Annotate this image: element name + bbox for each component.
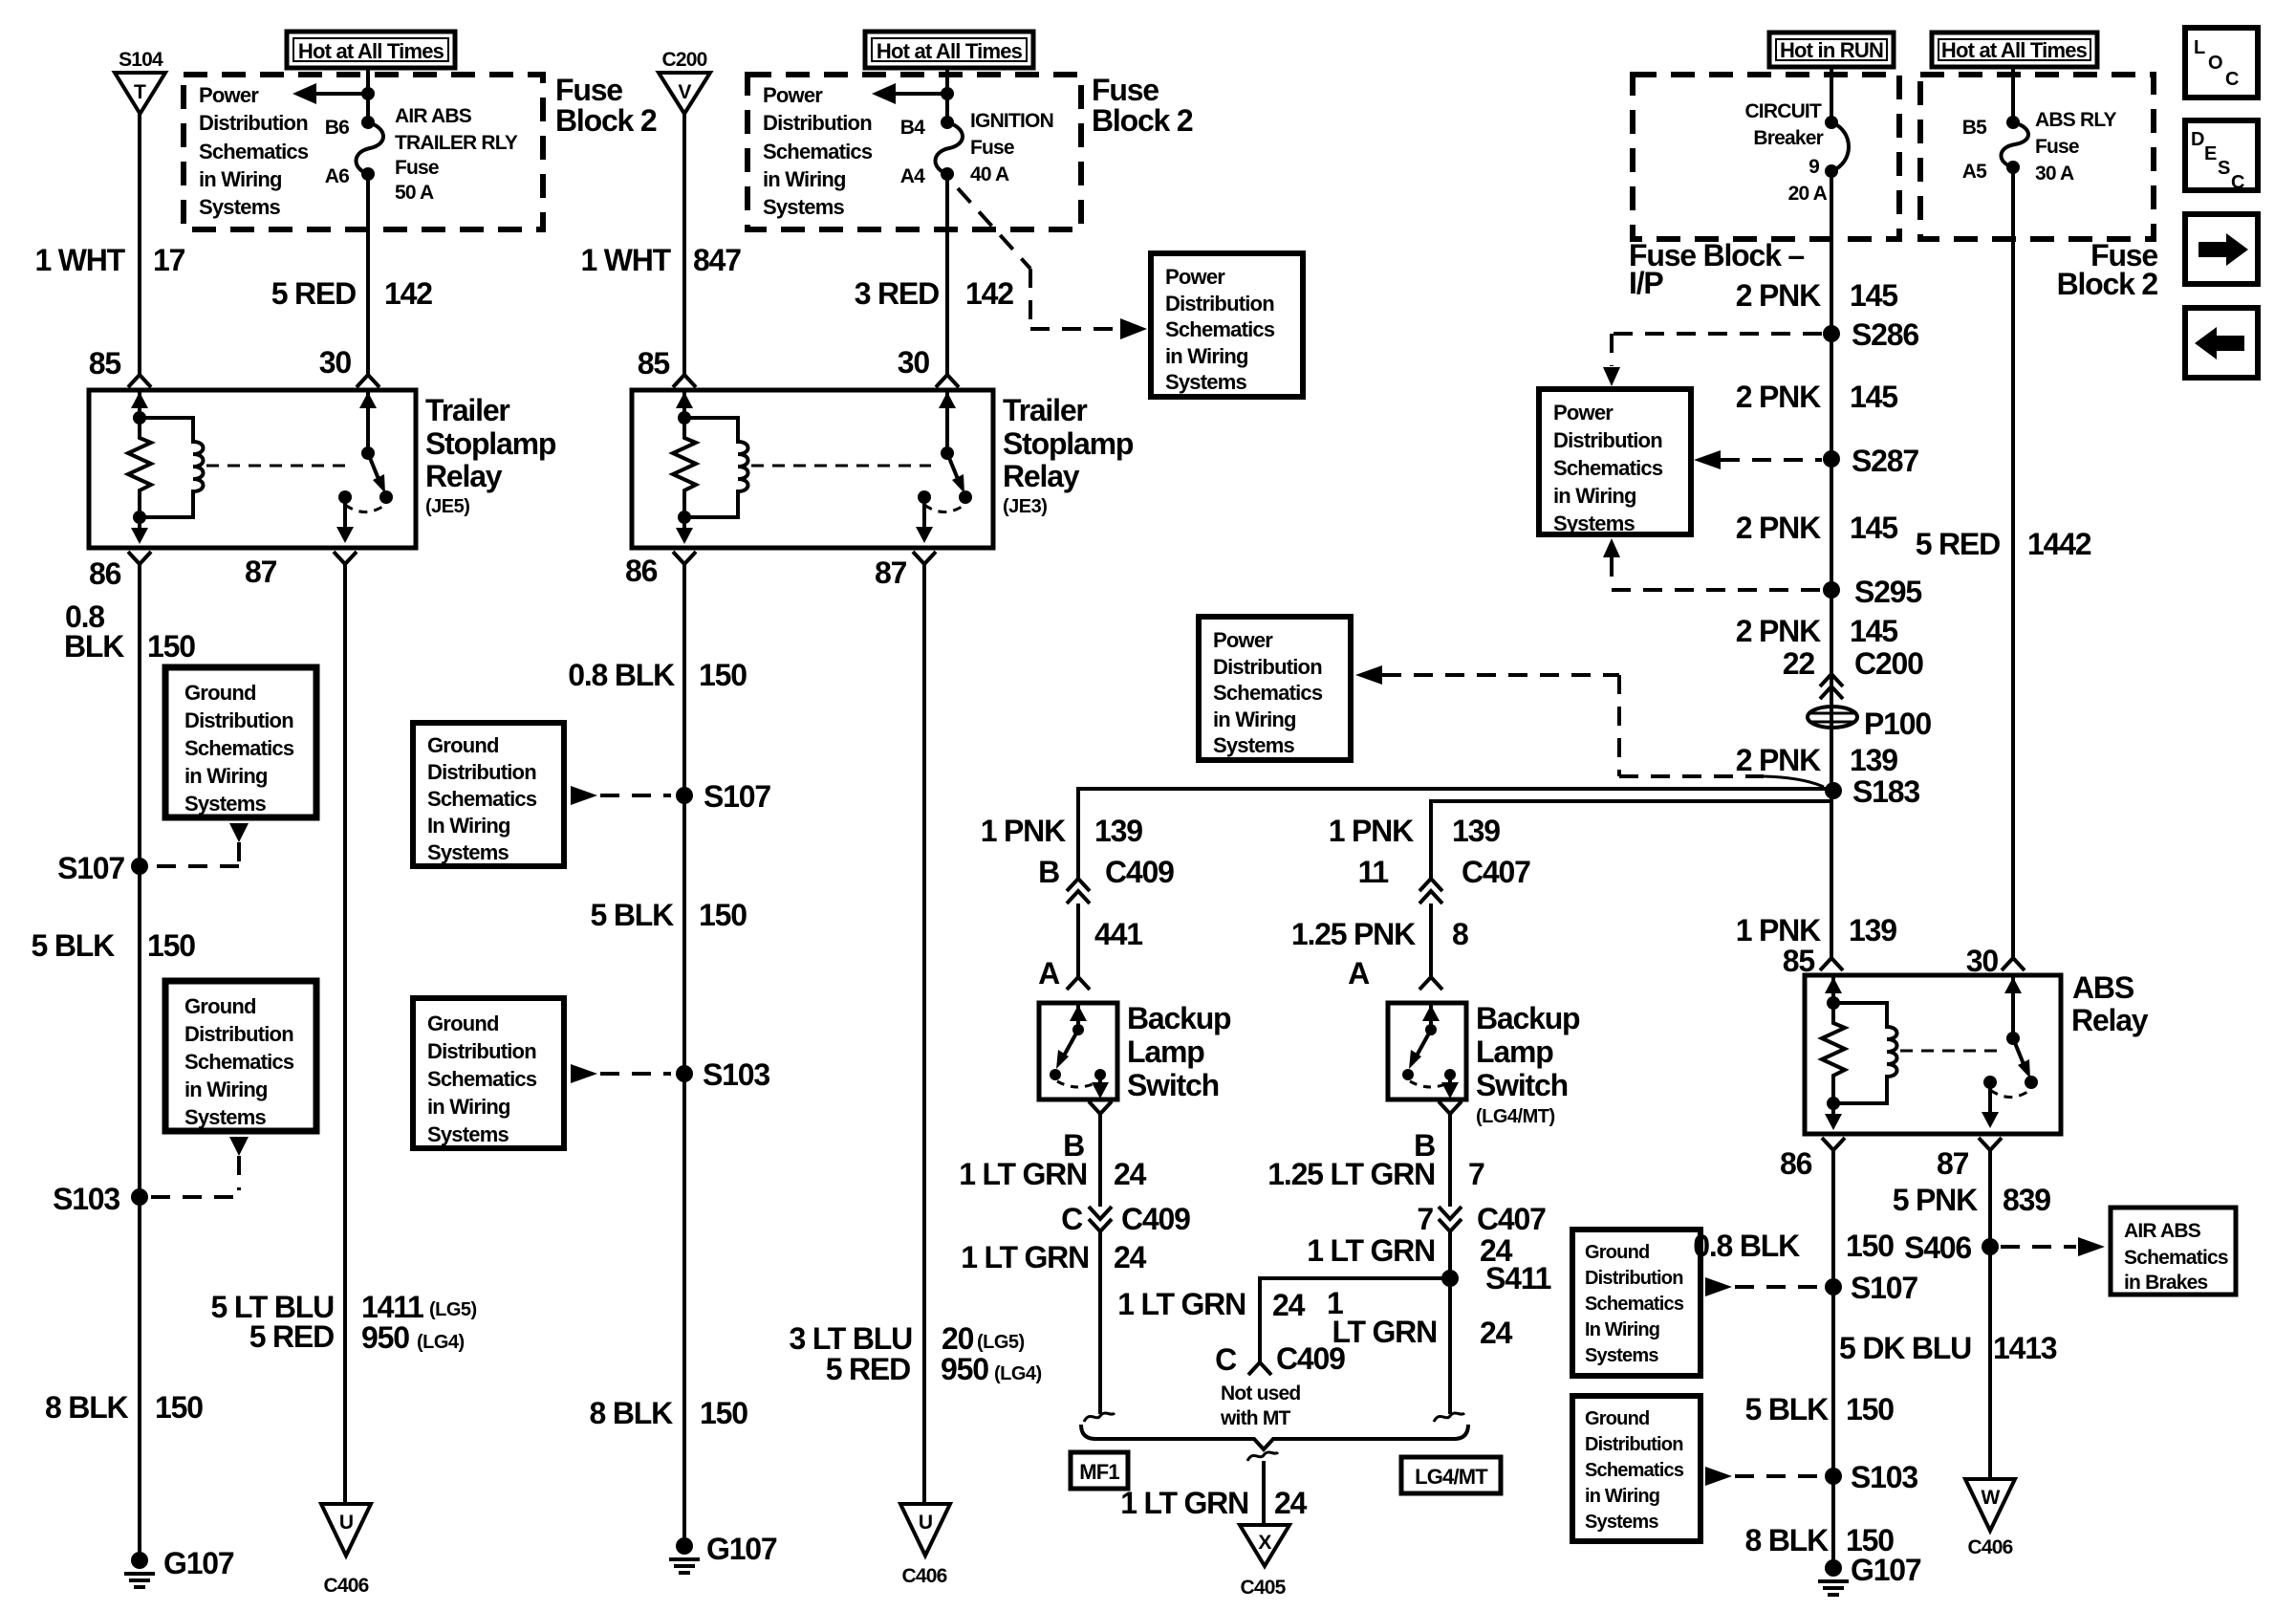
power label Hot at All Times (right)	[1932, 33, 2097, 67]
label 8 BLK 150 (right)	[1745, 1523, 1895, 1557]
wire S411 to C409 C (not used with MT)	[1248, 1278, 1450, 1375]
svg-text:1 WHT: 1 WHT	[34, 243, 125, 277]
svg-text:(LG4): (LG4)	[417, 1332, 465, 1353]
svg-text:85: 85	[89, 346, 121, 381]
svg-text:U: U	[339, 1512, 353, 1534]
connector C409 C chevrons	[1089, 1207, 1112, 1231]
svg-text:D: D	[2191, 129, 2204, 150]
svg-text:2 PNK: 2 PNK	[1736, 380, 1821, 414]
svg-text:150: 150	[155, 1390, 203, 1425]
label 5 DK BLU 1413	[1839, 1331, 2057, 1365]
label Trailer Stoplamp Relay (JE5)	[425, 393, 556, 517]
ground G107 (middle)	[669, 1532, 777, 1573]
ground G107 (left)	[124, 1546, 234, 1587]
ground distribution reference box (middle lower)	[413, 998, 564, 1148]
wire S104 to relay JE5 pin 85	[128, 114, 151, 387]
dashed reference link to S107 (middle)	[571, 786, 671, 805]
label 1 WHT 847	[580, 243, 741, 277]
svg-text:T: T	[134, 81, 146, 103]
wire circuit breaker to ABS relay pin 85	[1820, 171, 1843, 970]
ABS relay switch	[1982, 975, 2038, 1128]
label LG4/MT box	[1401, 1457, 1501, 1493]
wire fuse A6 to relay JE5 pin 30	[357, 174, 379, 387]
svg-text:8: 8	[1452, 917, 1468, 951]
label 5 BLK 150 (left)	[32, 928, 196, 963]
svg-text:C: C	[1061, 1202, 1083, 1236]
svg-text:G107: G107	[1851, 1553, 1921, 1587]
svg-text:Hot at All Times: Hot at All Times	[1941, 38, 2088, 62]
backup lamp switch MF1 contacts	[1050, 1003, 1109, 1099]
svg-text:C: C	[2231, 172, 2244, 193]
fuse block I/P dashed outline	[1633, 75, 1899, 239]
dashed reference S287 to Power Distribution box	[1694, 450, 1822, 469]
ground distribution reference box (left upper)	[165, 667, 316, 817]
svg-text:24: 24	[1114, 1240, 1147, 1274]
svg-text:150: 150	[1846, 1392, 1894, 1426]
svg-text:7: 7	[1468, 1157, 1484, 1191]
wire ABS RLY fuse to ABS relay pin 30	[2002, 167, 2025, 970]
wire backup lamp switch LG4/MT pin B down	[1439, 1101, 1462, 1207]
dashed reference S286 to Power Distribution box	[1603, 334, 1822, 386]
svg-text:S406: S406	[1904, 1230, 1971, 1265]
legend DESC box	[2185, 120, 2258, 193]
splice S103 (left)	[53, 1182, 148, 1216]
svg-text:CIRCUIT: CIRCUIT	[1744, 100, 1822, 122]
label 2 PNK 145 (second)	[1736, 380, 1897, 414]
wire S183 to C407 branch (backup lamp switch LG4/MT)	[1419, 801, 1831, 903]
svg-text:11: 11	[1358, 855, 1389, 889]
relay JE3 actuation dashed link	[751, 465, 931, 468]
svg-text:5 BLK: 5 BLK	[32, 928, 116, 963]
label 1 LT GRN 24 (below S411)	[1327, 1286, 1513, 1350]
svg-text:1411: 1411	[361, 1290, 423, 1324]
ground distribution reference box (middle upper)	[413, 723, 564, 866]
wire backup lamp switch MF1 pin B down	[1089, 1101, 1112, 1207]
svg-text:1 LT GRN: 1 LT GRN	[1307, 1233, 1435, 1268]
switch Backup Lamp Switch (LG4/MT) box	[1388, 1003, 1466, 1099]
svg-text:87: 87	[1937, 1146, 1969, 1181]
svg-text:5 RED: 5 RED	[826, 1352, 910, 1386]
svg-text:(LG5): (LG5)	[977, 1332, 1025, 1353]
relay JE5 switch	[336, 390, 393, 543]
svg-text:LG4/MT: LG4/MT	[1415, 1465, 1488, 1489]
backup lamp switch LG4/MT contacts	[1402, 1003, 1459, 1099]
splice S406	[1904, 1230, 1999, 1265]
label 5 RED 1442	[1916, 527, 2091, 561]
connector C406 triangle W (right)	[1965, 1479, 2015, 1558]
grommet P100	[1808, 707, 1931, 741]
label 2 PNK 139	[1736, 743, 1897, 777]
power distribution reference box (middle lower)	[1199, 617, 1351, 760]
svg-text:1 LT GRN: 1 LT GRN	[961, 1240, 1089, 1274]
label 5 PNK 839	[1893, 1183, 2050, 1217]
wire brace to C405	[1262, 1461, 1266, 1525]
svg-text:S183: S183	[1852, 774, 1919, 809]
svg-text:Hot in RUN: Hot in RUN	[1780, 38, 1883, 62]
svg-text:2 PNK: 2 PNK	[1736, 511, 1821, 545]
wire C407 7 to LG4/MT brace	[1448, 1231, 1452, 1414]
svg-text:30: 30	[319, 345, 352, 380]
svg-text:L: L	[2194, 37, 2205, 58]
label B C409	[1038, 855, 1174, 889]
svg-text:B5: B5	[1962, 117, 1987, 139]
svg-text:847: 847	[693, 243, 741, 277]
svg-text:S295: S295	[1854, 575, 1921, 609]
svg-text:24: 24	[1274, 1486, 1308, 1520]
wire Hot at All Times to ABS RLY fuse	[2011, 67, 2015, 122]
connector C200 triangle V	[659, 73, 710, 114]
svg-text:C200: C200	[1854, 646, 1923, 681]
label C C409	[1061, 1202, 1190, 1236]
svg-text:1 PNK: 1 PNK	[1736, 913, 1821, 947]
svg-text:(JE3): (JE3)	[1003, 496, 1047, 517]
svg-text:85: 85	[638, 346, 670, 381]
fuse block 2 dashed outline (middle)	[747, 75, 1081, 229]
svg-text:1413: 1413	[1993, 1331, 2057, 1365]
svg-text:1442: 1442	[2027, 527, 2091, 561]
fuse ABS RLY 30 A	[2001, 116, 2028, 174]
svg-text:S: S	[2218, 158, 2230, 179]
svg-text:8 BLK: 8 BLK	[45, 1390, 129, 1425]
svg-text:B4: B4	[900, 117, 925, 139]
svg-text:S287: S287	[1852, 444, 1918, 478]
ABS relay coil and resistor	[1822, 975, 1897, 1130]
wire Hot at All Times to fuse B4	[945, 68, 949, 122]
svg-text:5 PNK: 5 PNK	[1893, 1183, 1978, 1217]
svg-text:5 RED: 5 RED	[271, 276, 356, 311]
svg-text:0.8 BLK: 0.8 BLK	[568, 658, 675, 692]
svg-text:C406: C406	[323, 1575, 368, 1597]
ground distribution reference box (left lower)	[165, 981, 316, 1131]
label 1 LT GRN 24 (above S411)	[1307, 1233, 1512, 1268]
svg-text:G107: G107	[706, 1532, 777, 1566]
circuit breaker 20 A	[1825, 116, 1849, 178]
svg-text:22: 22	[1783, 646, 1815, 681]
svg-text:150: 150	[1846, 1229, 1894, 1263]
label 5 RED 142	[271, 276, 432, 311]
relay JE5 actuation dashed link	[206, 465, 352, 468]
connector C407 7 chevrons	[1439, 1207, 1462, 1231]
svg-text:C407: C407	[1462, 855, 1530, 889]
dashed reference S406 to AIR ABS box	[2001, 1237, 2105, 1256]
relay JE3 switch	[916, 390, 972, 543]
svg-text:145: 145	[1850, 278, 1897, 313]
svg-text:139: 139	[1849, 913, 1896, 947]
svg-text:S103: S103	[1851, 1460, 1917, 1494]
relay Trailer Stoplamp Relay JE5 box	[89, 390, 416, 548]
connector C406 triangle U (middle)	[900, 1504, 950, 1587]
svg-text:S286: S286	[1852, 317, 1918, 352]
svg-text:C: C	[1215, 1342, 1237, 1377]
svg-text:G107: G107	[163, 1546, 234, 1580]
svg-text:1 LT GRN: 1 LT GRN	[1120, 1486, 1248, 1520]
svg-text:5 DK BLU: 5 DK BLU	[1839, 1331, 1971, 1365]
wire ABS relay pin 86 to G107	[1822, 1138, 1845, 1560]
svg-text:150: 150	[147, 629, 195, 664]
label 8 BLK 150 (middle)	[590, 1396, 748, 1430]
fuse block 2 dashed outline (right)	[1920, 75, 2154, 239]
svg-text:A4: A4	[900, 165, 925, 187]
splice S107 (right)	[1825, 1271, 1917, 1305]
svg-text:(LG4/MT): (LG4/MT)	[1476, 1106, 1555, 1127]
svg-text:S104: S104	[119, 49, 163, 71]
dashed reference link to S103 (middle)	[571, 1064, 671, 1083]
squiggle end of MF1 branch wire	[1084, 1413, 1115, 1422]
label Backup Lamp Switch (LG4/MT)	[1476, 1001, 1580, 1127]
wire C409 C to MF1 brace	[1098, 1231, 1102, 1414]
svg-text:441: 441	[1094, 917, 1142, 951]
relay JE5 coil and resistor	[128, 390, 204, 544]
svg-text:MF1: MF1	[1079, 1460, 1119, 1484]
svg-text:A5: A5	[1962, 161, 1987, 183]
svg-text:C409: C409	[1105, 855, 1174, 889]
connector C405 triangle X	[1240, 1525, 1289, 1599]
fuse AIR ABS TRAILER RLY 50 A	[356, 116, 383, 181]
svg-text:(LG5): (LG5)	[429, 1299, 477, 1320]
squiggle below brace	[1247, 1452, 1278, 1461]
relay ABS Relay box	[1805, 975, 2061, 1134]
svg-text:S107: S107	[57, 851, 124, 885]
wire Hot in RUN to circuit breaker	[1830, 67, 1833, 122]
svg-text:139: 139	[1850, 743, 1897, 777]
label 8 BLK 150 (left)	[45, 1390, 203, 1425]
wire ABS relay pin 87 to C406 W	[1979, 1138, 2002, 1479]
arrow to Power Distribution reference (left fuse block)	[292, 83, 375, 104]
squiggle end of LG4/MT branch wire	[1434, 1413, 1464, 1422]
wire C409 B to backup lamp switch MF1	[1067, 903, 1090, 990]
power label Hot in RUN	[1769, 33, 1894, 67]
svg-text:839: 839	[2003, 1183, 2050, 1217]
label 0.8 BLK 150 (middle)	[568, 658, 747, 692]
svg-text:145: 145	[1850, 614, 1897, 648]
svg-text:86: 86	[1780, 1146, 1812, 1181]
svg-text:A: A	[1038, 956, 1060, 991]
label 11 C407	[1358, 855, 1531, 889]
svg-text:C406: C406	[1967, 1536, 2012, 1558]
svg-text:(LG4): (LG4)	[994, 1363, 1042, 1384]
ground G107 (right)	[1818, 1553, 1921, 1595]
svg-text:S103: S103	[53, 1182, 119, 1216]
dashed reference link to S107 (left)	[151, 823, 249, 866]
svg-text:8 BLK: 8 BLK	[1745, 1523, 1830, 1557]
power label Hot at All Times (middle)	[865, 32, 1033, 68]
label 1.25 LT GRN 7	[1267, 1157, 1484, 1191]
svg-text:142: 142	[384, 276, 432, 311]
svg-text:C: C	[2225, 69, 2239, 90]
power label Hot at All Times (left)	[287, 32, 455, 68]
ground distribution reference box (right upper)	[1572, 1230, 1700, 1376]
ABS relay actuation dashed link	[1900, 1050, 1998, 1053]
label Trailer Stoplamp Relay (JE3)	[1003, 393, 1134, 517]
svg-text:S411: S411	[1485, 1261, 1551, 1295]
relay JE3 coil and resistor	[673, 390, 748, 544]
label 1 PNK 139 (ABS relay)	[1736, 913, 1896, 947]
svg-text:24: 24	[1114, 1157, 1147, 1191]
svg-text:(JE5): (JE5)	[425, 496, 469, 517]
svg-text:87: 87	[875, 555, 907, 590]
svg-text:C200: C200	[661, 49, 706, 71]
wire Hot at All Times to fuse B6	[366, 68, 370, 122]
svg-text:9: 9	[1809, 156, 1819, 178]
splice S107 (left)	[57, 851, 148, 885]
svg-text:7: 7	[1417, 1202, 1433, 1236]
splice S107 (middle)	[676, 779, 770, 814]
svg-text:142: 142	[965, 276, 1013, 311]
fuse IGNITION 40 A	[935, 116, 963, 181]
svg-text:1 WHT: 1 WHT	[580, 243, 671, 277]
reference box AIR ABS Schematics in Brakes	[2111, 1208, 2236, 1295]
svg-text:950: 950	[941, 1352, 988, 1386]
connector S104 triangle T	[115, 73, 165, 114]
svg-text:C406: C406	[901, 1565, 946, 1587]
label 22 C200	[1783, 646, 1923, 681]
wire fuse A4 to relay JE3 pin 30	[936, 174, 959, 387]
label 1 LT GRN 24 (S411 branch)	[1117, 1287, 1305, 1322]
svg-text:145: 145	[1850, 511, 1897, 545]
splice S411	[1441, 1261, 1551, 1295]
label 5 BLK 150 (right)	[1745, 1392, 1895, 1426]
legend left arrow box	[2185, 308, 2258, 378]
label 5 BLK 150 (middle)	[591, 898, 747, 932]
svg-text:86: 86	[89, 556, 121, 591]
svg-text:C409: C409	[1121, 1202, 1190, 1236]
svg-text:139: 139	[1452, 814, 1500, 848]
label MF1 box	[1071, 1452, 1128, 1489]
svg-text:3 LT BLU: 3 LT BLU	[790, 1321, 913, 1356]
label 1 WHT 17	[34, 243, 184, 277]
dashed reference link to S103 (right)	[1705, 1467, 1820, 1486]
svg-text:2 PNK: 2 PNK	[1736, 614, 1821, 648]
label 1.25 PNK 8	[1291, 917, 1468, 951]
dashed reference from IGNITION fuse to Power Distribution box	[958, 188, 1147, 339]
svg-text:O: O	[2208, 53, 2222, 74]
dashed reference S183 to Power Distribution box (middle lower)	[1355, 665, 1824, 787]
svg-text:24: 24	[1480, 1316, 1513, 1350]
connector C200 chevrons (right wire)	[1820, 674, 1843, 699]
connector C406 triangle U (left)	[321, 1504, 371, 1597]
svg-text:C409: C409	[1276, 1341, 1345, 1376]
svg-text:150: 150	[699, 898, 747, 932]
dashed reference link to S103 (left)	[151, 1137, 249, 1197]
svg-text:A6: A6	[325, 165, 349, 187]
svg-text:1 LT GRN: 1 LT GRN	[1117, 1287, 1245, 1321]
svg-text:E: E	[2204, 143, 2217, 164]
svg-text:139: 139	[1094, 814, 1142, 848]
svg-text:Breaker: Breaker	[1753, 127, 1823, 149]
svg-text:S103: S103	[703, 1057, 769, 1092]
label B6 A6	[325, 117, 349, 187]
legend right arrow box	[2185, 214, 2258, 284]
power distribution reference box (right)	[1539, 389, 1691, 535]
svg-text:B6: B6	[325, 117, 349, 139]
label B4 A4	[900, 117, 925, 187]
svg-text:17: 17	[153, 243, 185, 277]
svg-text:LT GRN: LT GRN	[1332, 1315, 1437, 1349]
label 5 LT BLU 1411 (LG5) / 5 RED 950 (LG4)	[211, 1290, 477, 1355]
svg-text:P100: P100	[1864, 707, 1931, 741]
svg-text:30: 30	[898, 345, 930, 380]
wire C200 to relay JE3 pin 85	[673, 114, 696, 387]
label 0.8 BLK 150 (left)	[64, 599, 195, 664]
splice S103 (right)	[1825, 1460, 1917, 1494]
dashed reference link to S107 (right)	[1705, 1277, 1820, 1296]
svg-text:20 A: 20 A	[1788, 183, 1828, 205]
label B5 A5	[1962, 117, 1987, 183]
svg-text:S107: S107	[1851, 1271, 1917, 1305]
switch Backup Lamp Switch (MF1) box	[1039, 1003, 1117, 1099]
wire relay JE3 pin 87 to C406	[913, 552, 936, 1504]
svg-text:5 BLK: 5 BLK	[591, 898, 675, 932]
splice S287	[1823, 444, 1918, 478]
svg-text:0.8 BLK: 0.8 BLK	[1693, 1229, 1800, 1263]
svg-text:Hot at All Times: Hot at All Times	[877, 39, 1023, 63]
svg-text:150: 150	[700, 1396, 747, 1430]
label 1 PNK 139 (C407)	[1329, 814, 1500, 848]
label 2 PNK 145 (first)	[1736, 278, 1897, 313]
label 0.8 BLK 150 (right)	[1693, 1229, 1894, 1263]
svg-text:W: W	[1981, 1487, 2000, 1509]
svg-text:24: 24	[1272, 1288, 1306, 1322]
svg-text:A: A	[1348, 956, 1370, 991]
svg-text:1 LT GRN: 1 LT GRN	[959, 1157, 1087, 1191]
svg-text:3 RED: 3 RED	[855, 276, 939, 311]
svg-text:145: 145	[1850, 380, 1897, 414]
wire relay JE3 pin 86 to G107	[673, 552, 696, 1538]
relay Trailer Stoplamp Relay JE3 box	[632, 390, 993, 548]
svg-text:2 PNK: 2 PNK	[1736, 743, 1821, 777]
svg-text:950: 950	[361, 1320, 409, 1355]
svg-text:S107: S107	[704, 779, 770, 814]
svg-text:150: 150	[147, 928, 195, 963]
wire relay JE5 pin 86 to G107	[128, 552, 151, 1553]
splice S286	[1823, 317, 1918, 352]
label 1 LT GRN 24 (above C409 C)	[959, 1157, 1146, 1191]
svg-text:5 RED: 5 RED	[249, 1319, 334, 1354]
fuse block 2 dashed outline (left)	[184, 75, 543, 229]
dashed reference S295 to Power Distribution box	[1603, 538, 1822, 590]
svg-text:2 PNK: 2 PNK	[1736, 278, 1821, 313]
svg-text:20: 20	[942, 1321, 974, 1356]
svg-text:87: 87	[245, 555, 277, 589]
power distribution reference box (middle upper)	[1151, 253, 1303, 397]
svg-text:86: 86	[625, 554, 658, 588]
svg-text:5 RED: 5 RED	[1916, 527, 2000, 561]
svg-text:BLK: BLK	[64, 629, 124, 664]
svg-text:X: X	[1258, 1532, 1271, 1554]
wire relay JE5 pin 87 to C406	[334, 552, 357, 1504]
label 2 PNK 145 (third)	[1736, 511, 1897, 545]
label 2 PNK 145 (fourth)	[1736, 614, 1897, 648]
label 3 RED 142	[855, 276, 1013, 311]
svg-text:150: 150	[699, 658, 747, 692]
svg-text:1.25 LT GRN: 1.25 LT GRN	[1267, 1157, 1435, 1191]
svg-text:C407: C407	[1477, 1202, 1546, 1236]
wire C407 11 to backup lamp switch LG4/MT	[1419, 903, 1442, 990]
svg-text:V: V	[678, 81, 691, 103]
splice S103 (middle)	[676, 1057, 769, 1092]
svg-text:B: B	[1038, 855, 1059, 889]
svg-text:1 PNK: 1 PNK	[981, 814, 1066, 848]
svg-text:5 BLK: 5 BLK	[1745, 1392, 1830, 1426]
svg-text:U: U	[919, 1512, 932, 1534]
label CIRCUIT Breaker 9 20 A	[1744, 100, 1827, 205]
label 1 LT GRN 24 (C405)	[1120, 1486, 1307, 1520]
label C C409 (not used branch)	[1215, 1341, 1345, 1377]
svg-text:Hot at All Times: Hot at All Times	[298, 39, 444, 63]
label 1 PNK 139 (C409)	[981, 814, 1142, 848]
svg-text:C405: C405	[1240, 1577, 1286, 1599]
label 1 LT GRN 24 (lower MF1 branch)	[961, 1240, 1146, 1274]
